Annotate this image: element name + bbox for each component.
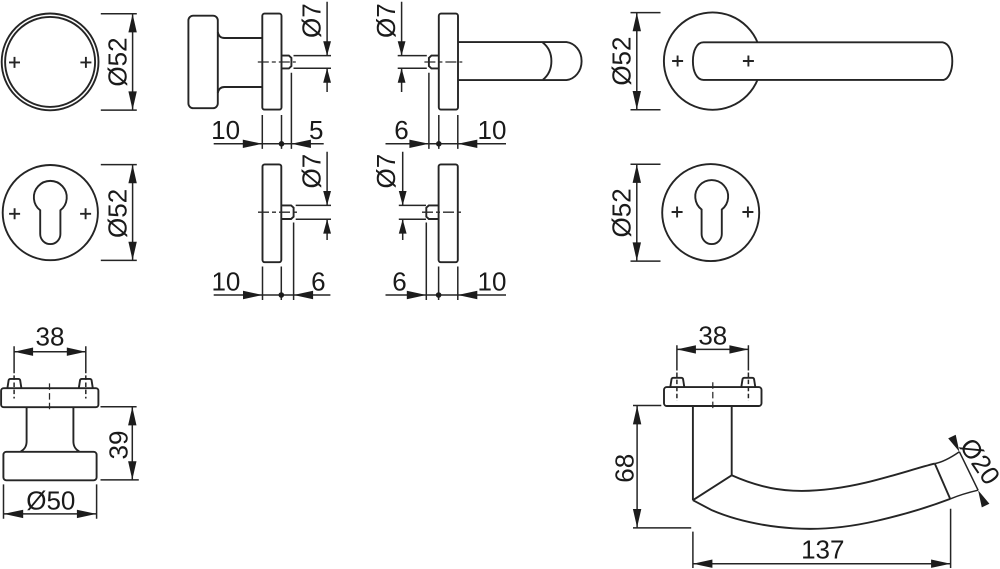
svg-text:Ø52: Ø52 [607, 188, 637, 237]
rose plate side view [263, 164, 282, 262]
center line [258, 211, 298, 213]
center line [49, 383, 51, 410]
svg-text:10: 10 [478, 115, 507, 145]
screw mark right [80, 57, 91, 68]
dimension Ø52 (figure E) [101, 165, 137, 261]
svg-text:10: 10 [211, 115, 240, 145]
svg-text:6: 6 [392, 266, 406, 296]
center line [422, 211, 462, 213]
center line [424, 61, 462, 63]
grip bend arc [543, 43, 552, 80]
svg-text:6: 6 [394, 115, 408, 145]
spindle stub [281, 205, 293, 219]
svg-text:Ø7: Ø7 [371, 3, 401, 38]
dimension 6 / 10 (figure G) [386, 223, 507, 301]
dimension Ø50 (figure I) [4, 484, 97, 518]
grip bottom curve [693, 499, 950, 529]
dimension Ø52 (figure H) [607, 164, 661, 261]
spindle stub [429, 56, 439, 69]
svg-text:Ø50: Ø50 [26, 485, 75, 515]
knob neck [21, 407, 80, 452]
knob base [3, 452, 96, 481]
dimension 10 / 5 (figure B) [211, 73, 324, 149]
lever front view [693, 42, 952, 80]
knob neck [218, 32, 262, 93]
escutcheon circle [662, 164, 759, 261]
mounting plate [1, 388, 98, 407]
svg-text:39: 39 [103, 431, 133, 460]
dimension 137 (figure J) [693, 509, 951, 568]
svg-text:5: 5 [309, 115, 323, 145]
escutcheon circle [3, 165, 98, 260]
svg-text:38: 38 [36, 322, 65, 352]
mounting plate [664, 387, 762, 406]
svg-text:Ø52: Ø52 [102, 189, 132, 238]
svg-text:Ø52: Ø52 [606, 37, 636, 86]
dimension 68 (figure J) [610, 406, 692, 528]
dimension 10 / 6 (figure F) [211, 223, 330, 301]
bend miter line [693, 475, 732, 500]
figure F: escutcheon side view, stub right (middle) [258, 164, 298, 262]
figure G: escutcheon side view, stub left (middle) [422, 164, 462, 262]
figure J: lever handle elevation (bottom-right) [664, 378, 950, 529]
figure D: rose with lever front view (top-right) [664, 12, 952, 109]
rose plate side view [262, 14, 281, 110]
screw mark right [743, 56, 754, 67]
grip tube [458, 42, 582, 80]
figure B: knob side view [188, 14, 295, 110]
dimension Ø20 (figure J) [935, 433, 1000, 508]
svg-text:6: 6 [311, 266, 325, 296]
svg-text:Ø52: Ø52 [102, 37, 132, 86]
figure A: round rose front view (top-left) [2, 14, 99, 111]
screw mark right [80, 208, 91, 219]
grip end cut [935, 464, 950, 499]
dimension Ø52 (figure A) [101, 14, 137, 110]
dimension 6 / 10 (figure C) [386, 73, 507, 149]
dimension Ø7 (figure C) [371, 2, 427, 92]
figure I: knob elevation (bottom-left) [1, 379, 98, 480]
cylinder keyhole [695, 180, 728, 244]
rose inner circle [5, 17, 95, 107]
svg-text:Ø7: Ø7 [371, 154, 401, 189]
screw right [79, 379, 93, 388]
center line [258, 61, 296, 63]
screw mark left [9, 208, 20, 219]
dimension 38 (figure I) [14, 322, 86, 399]
dimension Ø52 (figure D) [606, 13, 660, 110]
spindle stub [282, 56, 292, 69]
lever neck [693, 406, 732, 500]
rose plate side view [439, 14, 458, 110]
svg-text:137: 137 [801, 534, 844, 564]
svg-text:68: 68 [610, 454, 640, 483]
svg-text:10: 10 [478, 266, 507, 296]
svg-text:38: 38 [698, 320, 727, 350]
screw right [741, 378, 755, 387]
grip top curve [732, 464, 935, 491]
screw mark left [672, 207, 683, 218]
screw mark left [9, 57, 20, 68]
figure C: lever handle side view [424, 14, 581, 110]
dimension 38 (figure J) [677, 320, 749, 401]
screw mark right [742, 207, 753, 218]
dimension 39 (figure I) [101, 407, 139, 480]
rose plate side view [439, 164, 458, 262]
screw left [670, 378, 684, 387]
cylinder keyhole [34, 181, 67, 244]
dimension Ø7 (figure G) [371, 152, 426, 240]
spindle stub [426, 205, 438, 219]
dimension Ø7 (figure B) [294, 2, 332, 92]
svg-text:10: 10 [211, 266, 240, 296]
figure E: escutcheon front view (middle-left) [3, 165, 98, 260]
knob head [188, 16, 217, 109]
svg-text:Ø7: Ø7 [296, 154, 326, 189]
rose outer circle [2, 14, 99, 111]
rose circle [664, 12, 761, 109]
figure H: escutcheon front view (middle-right) [662, 164, 759, 261]
screw left [7, 379, 21, 388]
dimension Ø7 (figure F) [296, 152, 331, 240]
svg-text:Ø7: Ø7 [296, 3, 326, 38]
center line [712, 382, 714, 409]
screw mark left [672, 56, 683, 67]
